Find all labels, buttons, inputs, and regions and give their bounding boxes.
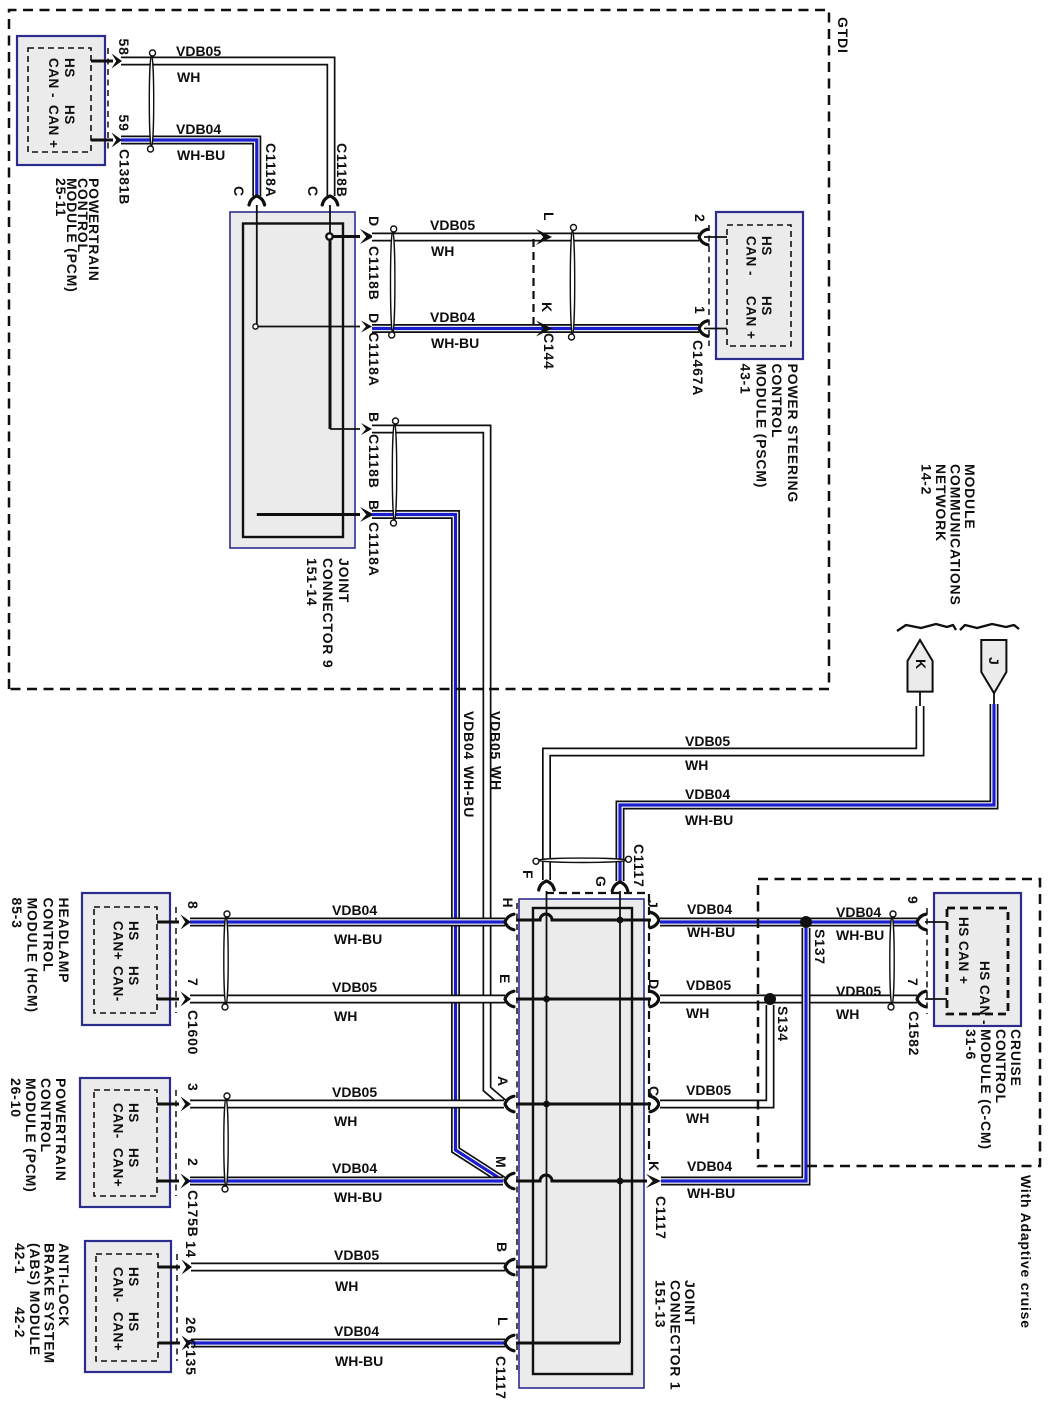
svg-text:WH-BU: WH-BU (334, 1189, 382, 1205)
svg-text:L: L (541, 212, 557, 221)
svg-text:WH-BU: WH-BU (836, 927, 884, 943)
svg-text:VDB05: VDB05 (836, 983, 881, 999)
svg-text:C1118A: C1118A (366, 332, 382, 387)
svg-text:WH: WH (685, 757, 708, 773)
svg-text:HS: HS (759, 296, 774, 316)
svg-text:9: 9 (905, 896, 921, 905)
svg-text:B: B (366, 412, 382, 423)
svg-text:K: K (646, 1161, 662, 1172)
svg-text:WH-BU: WH-BU (687, 1185, 735, 1201)
svg-text:VDB05: VDB05 (686, 1082, 731, 1098)
svg-text:26: 26 (183, 1317, 199, 1334)
svg-text:G: G (593, 876, 609, 888)
svg-text:7: 7 (905, 978, 921, 987)
svg-text:WH: WH (686, 1110, 709, 1126)
svg-text:2: 2 (692, 214, 708, 223)
svg-text:CAN -: CAN - (46, 58, 61, 98)
svg-text:WH-BU: WH-BU (334, 931, 382, 947)
svg-text:J: J (986, 657, 1002, 666)
svg-text:D: D (366, 216, 382, 227)
svg-text:CAN+: CAN+ (111, 921, 126, 960)
svg-text:WH: WH (334, 1113, 357, 1129)
svg-text:S137: S137 (812, 929, 828, 965)
svg-text:C1118A: C1118A (263, 143, 279, 198)
svg-text:WH: WH (686, 1005, 709, 1021)
svg-text:WH: WH (431, 243, 454, 259)
svg-text:CONTROL: CONTROL (993, 1029, 1009, 1104)
svg-text:CONNECTOR 1: CONNECTOR 1 (667, 1280, 683, 1390)
svg-text:MODULE (PCM): MODULE (PCM) (23, 1078, 39, 1193)
svg-text:43-1: 43-1 (738, 364, 754, 395)
svg-text:VDB04: VDB04 (685, 786, 730, 802)
svg-text:JOINT: JOINT (682, 1280, 698, 1325)
svg-text:B: B (494, 1242, 510, 1253)
svg-text:POWER STEERING: POWER STEERING (785, 364, 801, 504)
svg-text:VDB05: VDB05 (686, 977, 731, 993)
svg-text:CAN-: CAN- (111, 1103, 126, 1139)
svg-text:CAN-: CAN- (111, 1267, 126, 1303)
svg-text:HS: HS (62, 105, 77, 125)
svg-text:HS: HS (126, 1267, 141, 1287)
svg-text:HS: HS (62, 58, 77, 78)
svg-text:C: C (231, 186, 247, 197)
svg-text:HS: HS (126, 966, 141, 986)
svg-text:WH: WH (334, 1008, 357, 1024)
svg-text:CAN+: CAN+ (111, 1148, 126, 1187)
svg-text:BRAKE SYSTEM: BRAKE SYSTEM (41, 1243, 57, 1364)
svg-text:CRUISE: CRUISE (1008, 1029, 1024, 1087)
svg-text:CAN+: CAN+ (111, 1312, 126, 1351)
svg-text:WH: WH (489, 766, 505, 791)
svg-text:VDB05: VDB05 (430, 217, 475, 233)
svg-text:C1467A: C1467A (690, 340, 706, 396)
svg-text:WH-BU: WH-BU (431, 335, 479, 351)
svg-text:14-2: 14-2 (919, 464, 935, 495)
svg-text:VDB05: VDB05 (332, 979, 377, 995)
svg-text:CONNECTOR 9: CONNECTOR 9 (320, 558, 336, 668)
svg-text:With Adaptive cruise: With Adaptive cruise (1018, 1175, 1034, 1329)
svg-text:VDB04: VDB04 (332, 902, 377, 918)
svg-text:VDB04: VDB04 (687, 901, 732, 917)
svg-text:VDB04: VDB04 (332, 1160, 377, 1176)
svg-text:WH-BU: WH-BU (687, 924, 735, 940)
svg-text:3: 3 (185, 1083, 201, 1092)
svg-text:M: M (493, 1156, 509, 1168)
svg-text:VDB04: VDB04 (461, 711, 477, 760)
svg-text:1: 1 (692, 306, 708, 315)
svg-text:VDB04: VDB04 (430, 309, 475, 325)
svg-text:J: J (645, 900, 661, 909)
svg-text:JOINT: JOINT (336, 558, 352, 603)
svg-text:CAN -: CAN - (744, 236, 759, 276)
svg-text:85-3: 85-3 (9, 898, 25, 929)
svg-text:HS: HS (759, 236, 774, 256)
svg-text:14: 14 (183, 1241, 199, 1258)
svg-text:WH-BU: WH-BU (685, 812, 733, 828)
svg-text:HS: HS (126, 1148, 141, 1168)
svg-text:C1118B: C1118B (366, 434, 382, 489)
svg-text:HEADLAMP: HEADLAMP (56, 898, 72, 984)
svg-text:HS: HS (126, 1103, 141, 1123)
svg-text:CONTROL: CONTROL (769, 364, 785, 439)
svg-text:WH: WH (177, 69, 200, 85)
svg-text:WH-BU: WH-BU (177, 147, 225, 163)
svg-text:CAN +: CAN + (744, 296, 759, 339)
svg-text:HS CAN +: HS CAN + (956, 917, 971, 984)
svg-text:E: E (497, 974, 513, 984)
svg-text:8: 8 (185, 901, 201, 910)
svg-text:58: 58 (116, 39, 132, 56)
svg-text:VDB05: VDB05 (334, 1247, 379, 1263)
svg-text:C1117: C1117 (631, 844, 647, 888)
svg-text:GTDI: GTDI (835, 17, 851, 54)
svg-text:C1600: C1600 (185, 1010, 201, 1055)
svg-text:WH: WH (836, 1006, 859, 1022)
svg-text:F: F (520, 870, 536, 879)
svg-text:C1118B: C1118B (334, 143, 350, 198)
svg-text:VDB04: VDB04 (334, 1323, 379, 1339)
svg-text:D: D (646, 979, 662, 990)
svg-text:MODULE (C-CM): MODULE (C-CM) (978, 1029, 994, 1150)
svg-text:C1118B: C1118B (366, 246, 382, 301)
svg-text:VDB04: VDB04 (836, 904, 881, 920)
svg-text:H: H (500, 898, 516, 909)
svg-text:2: 2 (185, 1158, 201, 1167)
svg-text:C135: C135 (183, 1339, 199, 1376)
svg-text:WH-BU: WH-BU (461, 766, 477, 818)
svg-text:VDB05: VDB05 (176, 43, 221, 59)
svg-text:K: K (913, 659, 929, 670)
svg-text:C: C (305, 186, 321, 197)
svg-text:CAN-: CAN- (111, 966, 126, 1002)
svg-text:HS: HS (126, 921, 141, 941)
svg-text:VDB04: VDB04 (687, 1158, 732, 1174)
svg-text:MODULE (HCM): MODULE (HCM) (25, 898, 41, 1013)
svg-text:MODULE (PSCM): MODULE (PSCM) (753, 364, 769, 489)
svg-text:L: L (495, 1317, 511, 1326)
svg-text:S134: S134 (775, 1006, 791, 1042)
svg-text:POWERTRAIN: POWERTRAIN (53, 1078, 69, 1182)
svg-text:C175B: C175B (185, 1190, 201, 1238)
svg-text:31-6: 31-6 (963, 1029, 979, 1060)
svg-text:C1117: C1117 (653, 1196, 669, 1240)
svg-text:D: D (366, 313, 382, 324)
svg-text:VDB05: VDB05 (685, 733, 730, 749)
svg-text:151-13: 151-13 (653, 1280, 669, 1328)
svg-text:HS CAN -: HS CAN - (977, 961, 992, 1025)
svg-text:HS: HS (126, 1312, 141, 1332)
svg-text:C1117: C1117 (493, 1356, 509, 1400)
svg-text:VDB05: VDB05 (488, 711, 504, 760)
svg-text:(ABS) MODULE: (ABS) MODULE (27, 1243, 43, 1356)
svg-text:25-11: 25-11 (53, 178, 69, 217)
svg-text:26-10: 26-10 (8, 1078, 24, 1118)
svg-text:42-1 42-2: 42-1 42-2 (12, 1243, 28, 1338)
svg-text:ANTI-LOCK: ANTI-LOCK (56, 1243, 72, 1327)
svg-text:C1118A: C1118A (366, 522, 382, 577)
svg-text:A: A (495, 1076, 511, 1087)
svg-text:VDB05: VDB05 (332, 1084, 377, 1100)
svg-text:K: K (539, 302, 555, 313)
svg-text:C1381B: C1381B (117, 149, 133, 205)
svg-text:7: 7 (185, 978, 201, 987)
svg-text:CAN +: CAN + (46, 105, 61, 148)
svg-text:WH: WH (335, 1278, 358, 1294)
svg-text:CONTROL: CONTROL (38, 1078, 54, 1153)
svg-text:151-14: 151-14 (304, 558, 320, 606)
svg-text:B: B (366, 500, 382, 511)
svg-text:VDB04: VDB04 (176, 121, 221, 137)
svg-text:C: C (646, 1086, 662, 1097)
svg-text:59: 59 (116, 115, 132, 132)
svg-text:C1582: C1582 (906, 1011, 922, 1056)
svg-text:WH-BU: WH-BU (335, 1353, 383, 1369)
svg-text:CONTROL: CONTROL (40, 898, 56, 973)
svg-text:C144: C144 (541, 333, 557, 370)
